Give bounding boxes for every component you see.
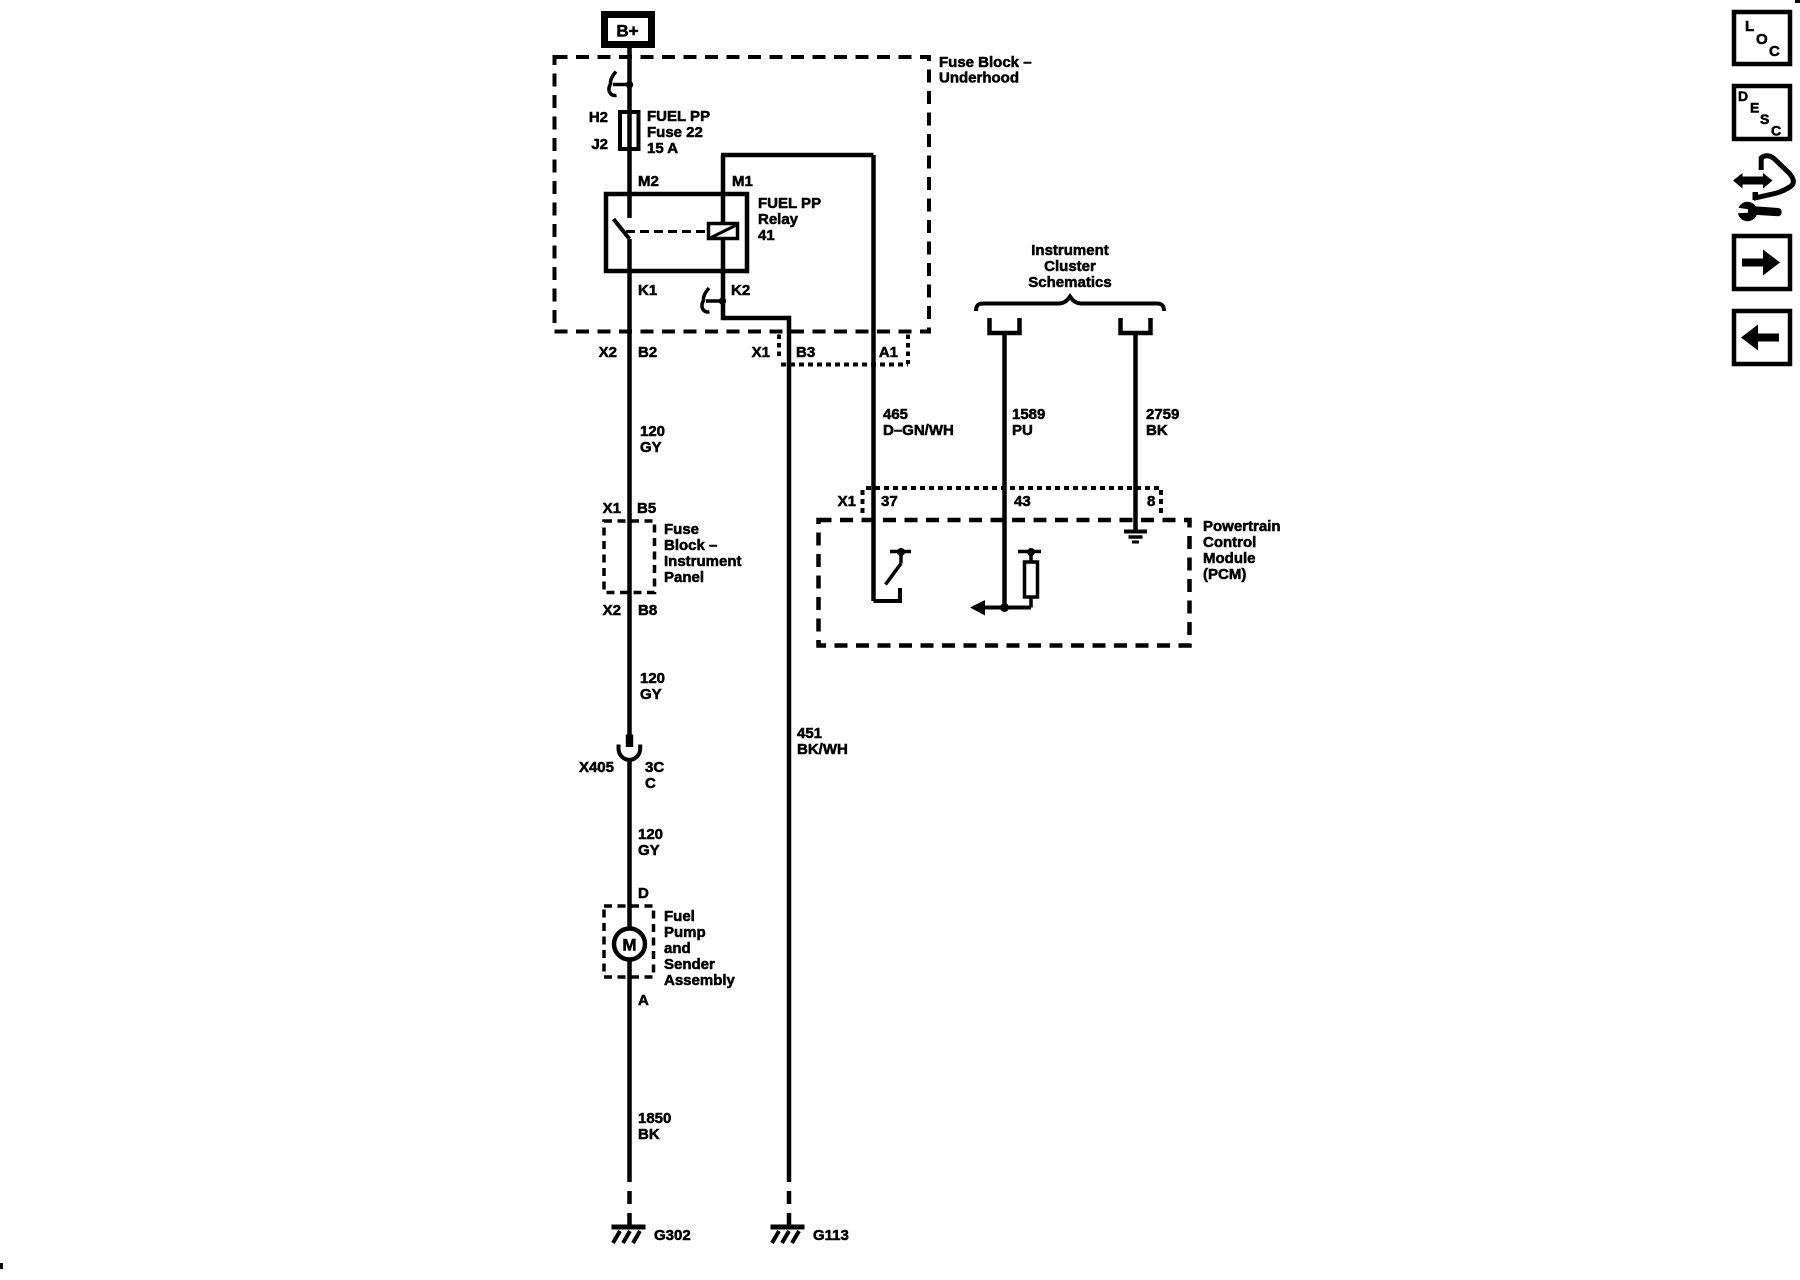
- svg-text:1850: 1850: [638, 1110, 671, 1127]
- svg-text:FUEL PP: FUEL PP: [647, 108, 710, 125]
- svg-text:H2: H2: [589, 109, 608, 126]
- svg-text:B+: B+: [616, 22, 638, 41]
- svg-text:15 A: 15 A: [647, 140, 678, 157]
- svg-text:and: and: [664, 940, 691, 957]
- svg-text:GY: GY: [638, 842, 660, 859]
- svg-text:X1: X1: [752, 344, 770, 361]
- svg-text:O: O: [1756, 31, 1768, 48]
- svg-text:A: A: [638, 992, 649, 1009]
- svg-text:1589: 1589: [1012, 406, 1045, 423]
- svg-text:120: 120: [638, 826, 663, 843]
- svg-text:E: E: [1750, 100, 1759, 116]
- svg-text:X2: X2: [603, 602, 621, 619]
- svg-text:B8: B8: [638, 602, 657, 619]
- svg-text:41: 41: [758, 227, 775, 244]
- svg-text:Sender: Sender: [664, 956, 715, 973]
- svg-text:X1: X1: [603, 500, 621, 517]
- svg-text:D: D: [1738, 88, 1748, 104]
- svg-text:37: 37: [881, 493, 898, 510]
- svg-text:J2: J2: [591, 136, 608, 153]
- svg-text:(PCM): (PCM): [1203, 566, 1246, 583]
- svg-text:BK/WH: BK/WH: [797, 741, 848, 758]
- svg-text:B2: B2: [638, 344, 657, 361]
- svg-text:451: 451: [797, 725, 822, 742]
- svg-text:Powertrain: Powertrain: [1203, 518, 1281, 535]
- svg-text:Fuse 22: Fuse 22: [647, 124, 703, 141]
- svg-text:Block –: Block –: [664, 537, 717, 554]
- svg-text:BK: BK: [1146, 422, 1168, 439]
- svg-text:C: C: [1771, 123, 1781, 139]
- svg-text:X2: X2: [599, 344, 617, 361]
- svg-text:Control: Control: [1203, 534, 1256, 551]
- svg-text:Underhood: Underhood: [939, 70, 1019, 87]
- svg-text:120: 120: [640, 423, 665, 440]
- svg-text:L: L: [1745, 18, 1754, 35]
- svg-text:Relay: Relay: [758, 211, 799, 228]
- svg-text:C: C: [645, 775, 656, 792]
- svg-text:PU: PU: [1012, 422, 1033, 439]
- svg-text:C: C: [1769, 43, 1780, 60]
- svg-text:3C: 3C: [645, 759, 664, 776]
- svg-text:Instrument: Instrument: [1031, 242, 1109, 259]
- svg-text:Cluster: Cluster: [1044, 258, 1096, 275]
- svg-text:X405: X405: [579, 759, 614, 776]
- svg-text:FUEL PP: FUEL PP: [758, 195, 821, 212]
- svg-text:M2: M2: [638, 173, 659, 190]
- svg-text:D–GN/WH: D–GN/WH: [883, 422, 954, 439]
- svg-text:K2: K2: [731, 282, 750, 299]
- svg-text:2759: 2759: [1146, 406, 1179, 423]
- svg-text:120: 120: [640, 670, 665, 687]
- svg-text:Pump: Pump: [664, 924, 706, 941]
- svg-text:GY: GY: [640, 439, 662, 456]
- svg-text:D: D: [638, 885, 649, 902]
- svg-text:Fuel: Fuel: [664, 908, 695, 925]
- svg-text:M1: M1: [732, 173, 753, 190]
- svg-text:Module: Module: [1203, 550, 1256, 567]
- svg-text:Assembly: Assembly: [664, 972, 736, 989]
- svg-text:Fuse Block –: Fuse Block –: [939, 54, 1032, 71]
- svg-text:Panel: Panel: [664, 569, 704, 586]
- svg-text:B5: B5: [637, 500, 656, 517]
- svg-text:M: M: [622, 936, 636, 955]
- svg-text:Fuse: Fuse: [664, 521, 699, 538]
- svg-text:Schematics: Schematics: [1028, 274, 1111, 291]
- svg-text:BK: BK: [638, 1126, 660, 1143]
- svg-text:X1: X1: [838, 493, 856, 510]
- svg-text:S: S: [1760, 111, 1769, 127]
- svg-text:G113: G113: [813, 1227, 849, 1244]
- svg-text:43: 43: [1014, 493, 1031, 510]
- svg-text:GY: GY: [640, 686, 662, 703]
- svg-text:B3: B3: [796, 344, 815, 361]
- svg-text:Instrument: Instrument: [664, 553, 742, 570]
- svg-text:8: 8: [1147, 493, 1155, 510]
- svg-text:465: 465: [883, 406, 908, 423]
- svg-text:K1: K1: [638, 282, 657, 299]
- svg-text:G302: G302: [654, 1227, 691, 1244]
- svg-text:A1: A1: [879, 344, 898, 361]
